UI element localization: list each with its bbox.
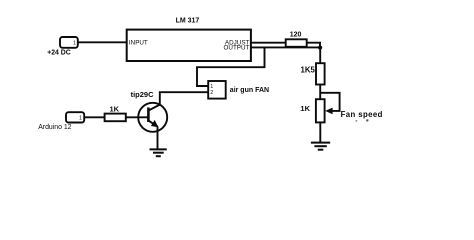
label Arduino 12 bbox=[38, 124, 71, 131]
svg-text:2: 2 bbox=[210, 90, 213, 96]
wire resistor 120 right side down to node bbox=[307, 43, 320, 48]
label air gun FAN bbox=[230, 87, 269, 94]
pot wiper wire bracket to top terminal bbox=[320, 93, 339, 111]
pin name ADJUST bbox=[225, 39, 250, 46]
svg-text:Arduino 12: Arduino 12 bbox=[38, 124, 71, 131]
ground symbol (right) bbox=[311, 143, 330, 150]
connector J3 (Arduino 12) body bbox=[66, 112, 84, 122]
wire potentiometer to ground bbox=[319, 122, 321, 142]
resistor R3 1K body bbox=[105, 114, 126, 122]
wire 1K to Q1 base bbox=[126, 116, 149, 118]
connector J2 (air gun FAN) body bbox=[208, 81, 226, 99]
pot wiper arrowhead bbox=[325, 108, 332, 115]
svg-text:tip29C: tip29C bbox=[131, 90, 155, 99]
pin name INPUT bbox=[129, 39, 148, 46]
svg-text:1K5: 1K5 bbox=[300, 65, 315, 74]
label Fan speed bbox=[341, 110, 383, 119]
svg-text:air gun FAN: air gun FAN bbox=[230, 87, 269, 94]
svg-text:1K: 1K bbox=[110, 104, 120, 113]
svg-text:1: 1 bbox=[73, 41, 76, 47]
svg-text:+24 DC: +24 DC bbox=[47, 50, 71, 57]
svg-text:1K: 1K bbox=[300, 104, 310, 113]
label LM 317 bbox=[176, 18, 200, 25]
junction dot at node bbox=[318, 46, 322, 50]
resistor R2 1K5 body bbox=[316, 63, 325, 84]
svg-text:Fan speed: Fan speed bbox=[341, 110, 383, 119]
wire OUTPUT branch down to fan pin 1 bbox=[197, 47, 265, 86]
wire 1K5 to potentiometer bbox=[319, 85, 321, 100]
potentiometer RV1 1K body bbox=[316, 99, 325, 122]
wire J1 pin1 to U1 INPUT bbox=[78, 41, 127, 43]
transistor Q1 tip29C bbox=[138, 103, 167, 132]
ground symbol (left) bbox=[150, 149, 167, 156]
value label 1K (potentiometer) bbox=[300, 104, 310, 113]
pin name OUTPUT bbox=[224, 45, 250, 52]
svg-text:LM 317: LM 317 bbox=[176, 18, 200, 25]
pin number 1 of J1 bbox=[73, 41, 76, 47]
wire OUTPUT pin to node bbox=[251, 46, 320, 48]
wire ADJUST pin to resistor 120 bbox=[251, 42, 286, 44]
svg-text:120: 120 bbox=[290, 32, 302, 39]
svg-text:INPUT: INPUT bbox=[129, 39, 148, 46]
value label 120 bbox=[290, 32, 302, 39]
wire Q1 emitter to ground bbox=[157, 126, 159, 149]
resistor R1 120 body bbox=[286, 39, 307, 47]
wire fan pin 2 to Q1 collector bbox=[160, 92, 208, 105]
wire Arduino pin to resistor 1K bbox=[84, 116, 104, 118]
svg-text:1: 1 bbox=[79, 115, 82, 121]
pin number 2 of J2 bbox=[210, 90, 213, 96]
value label 1K5 bbox=[300, 65, 315, 74]
value label 1K (base resistor) bbox=[110, 104, 120, 113]
wire node down to resistor 1K5 bbox=[319, 48, 321, 64]
connector J1 (+24 DC) body bbox=[60, 37, 78, 48]
svg-text:OUTPUT: OUTPUT bbox=[224, 45, 250, 52]
pin number 1 of J2 bbox=[210, 84, 213, 90]
label +24 DC bbox=[47, 50, 71, 57]
label tip29C bbox=[131, 90, 155, 99]
pin number 1 of J3 bbox=[79, 115, 82, 121]
regulator U1 body (LM 317) bbox=[127, 30, 251, 61]
